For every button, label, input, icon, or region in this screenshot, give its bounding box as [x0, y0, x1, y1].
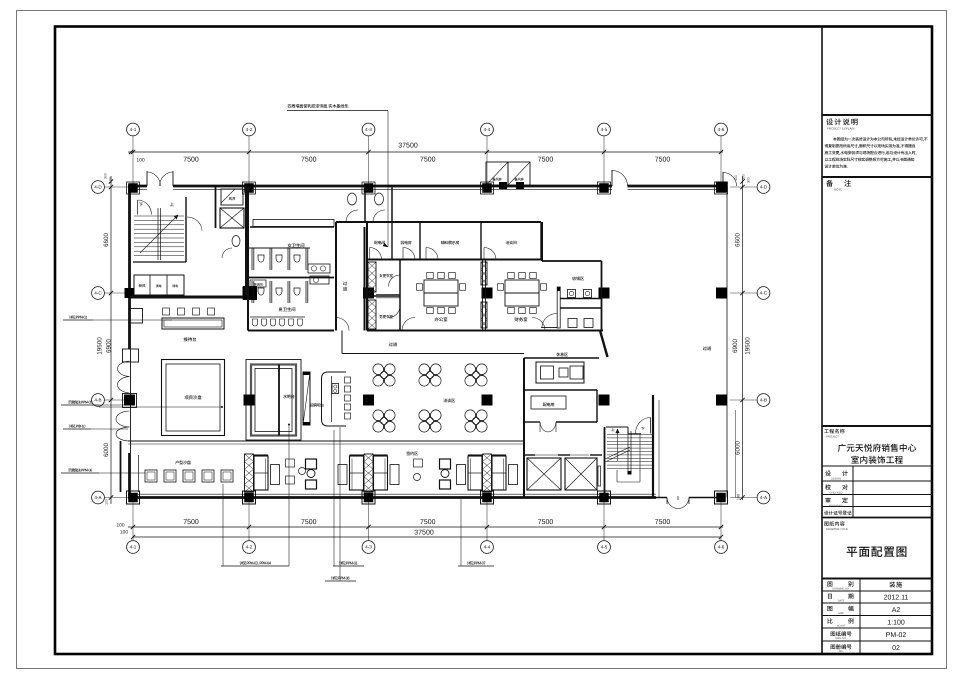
- svg-text:NO.: NO.: [839, 650, 844, 653]
- svg-text:100: 100: [120, 530, 128, 536]
- svg-text:4-B: 4-B: [94, 398, 101, 403]
- svg-text:4-4: 4-4: [484, 127, 491, 132]
- svg-text:DATE: DATE: [838, 600, 845, 603]
- svg-text:4-6: 4-6: [718, 127, 725, 132]
- svg-text:7500: 7500: [183, 157, 199, 164]
- svg-text:PM-02: PM-02: [886, 632, 907, 639]
- svg-text:DRAWING NO.: DRAWING NO.: [832, 588, 849, 591]
- svg-text:4-D: 4-D: [760, 185, 768, 190]
- svg-text:DESIGN: DESIGN: [831, 477, 841, 480]
- svg-text:4-A: 4-A: [760, 495, 768, 500]
- svg-text:300: 300: [104, 173, 108, 179]
- svg-text:37500: 37500: [414, 530, 434, 537]
- svg-text:4-3: 4-3: [365, 545, 372, 550]
- svg-text:7500: 7500: [538, 519, 554, 526]
- svg-text:CHECKED: CHECKED: [830, 491, 843, 494]
- svg-text:4-B: 4-B: [760, 398, 767, 403]
- svg-text:02: 02: [892, 645, 900, 652]
- svg-text:PROJECT EXPLAIN: PROJECT EXPLAIN: [827, 127, 854, 131]
- svg-text:7500: 7500: [655, 157, 671, 164]
- svg-text:6900: 6900: [106, 339, 113, 354]
- svg-text:6900: 6900: [732, 339, 739, 354]
- svg-text:300: 300: [742, 174, 746, 180]
- svg-text:7500: 7500: [301, 157, 317, 164]
- svg-text:7500: 7500: [538, 157, 554, 164]
- svg-text:4-3: 4-3: [365, 127, 372, 132]
- svg-text:100: 100: [734, 175, 738, 181]
- svg-text:4-5: 4-5: [601, 545, 608, 550]
- svg-text:PROJECT: PROJECT: [826, 435, 839, 439]
- svg-text:4-2: 4-2: [246, 127, 253, 132]
- svg-text:7500: 7500: [420, 157, 436, 164]
- svg-text:1:100: 1:100: [887, 619, 905, 626]
- svg-text:100: 100: [136, 158, 145, 164]
- svg-text:100: 100: [109, 177, 113, 183]
- svg-text:37500: 37500: [398, 143, 418, 150]
- svg-text:4-4: 4-4: [484, 545, 491, 550]
- svg-text:4-D: 4-D: [94, 185, 102, 190]
- svg-text:SIZE: SIZE: [838, 612, 844, 615]
- svg-text:6600: 6600: [735, 233, 742, 248]
- svg-text:SCALE: SCALE: [837, 625, 846, 628]
- svg-text:6000: 6000: [103, 443, 110, 458]
- svg-text:4-C: 4-C: [94, 291, 102, 296]
- svg-text:DRAWING TITLE: DRAWING TITLE: [826, 527, 848, 531]
- svg-text:19500: 19500: [97, 337, 104, 355]
- svg-text:4-A: 4-A: [94, 495, 102, 500]
- svg-text:300: 300: [747, 177, 751, 183]
- svg-text:7500: 7500: [183, 519, 199, 526]
- svg-text:6600: 6600: [103, 233, 110, 248]
- svg-text:NOTE: NOTE: [834, 188, 842, 192]
- svg-text:4-2: 4-2: [246, 545, 253, 550]
- svg-text:4-5: 4-5: [601, 127, 608, 132]
- svg-text:A2: A2: [892, 607, 901, 614]
- svg-text:7500: 7500: [420, 519, 436, 526]
- svg-text:APPROVED: APPROVED: [829, 504, 844, 507]
- svg-text:100: 100: [116, 523, 124, 529]
- svg-text:19500: 19500: [745, 337, 752, 355]
- svg-text:7500: 7500: [301, 519, 317, 526]
- svg-text:DWG NO.: DWG NO.: [835, 637, 847, 640]
- svg-text:2012.11: 2012.11: [884, 595, 909, 602]
- svg-text:4-1: 4-1: [130, 127, 137, 132]
- svg-text:7500: 7500: [655, 519, 671, 526]
- svg-text:4-6: 4-6: [718, 545, 725, 550]
- svg-text:4-C: 4-C: [760, 291, 768, 296]
- svg-text:100: 100: [737, 494, 741, 500]
- svg-text:100: 100: [105, 499, 109, 505]
- svg-text:4-1: 4-1: [130, 545, 137, 550]
